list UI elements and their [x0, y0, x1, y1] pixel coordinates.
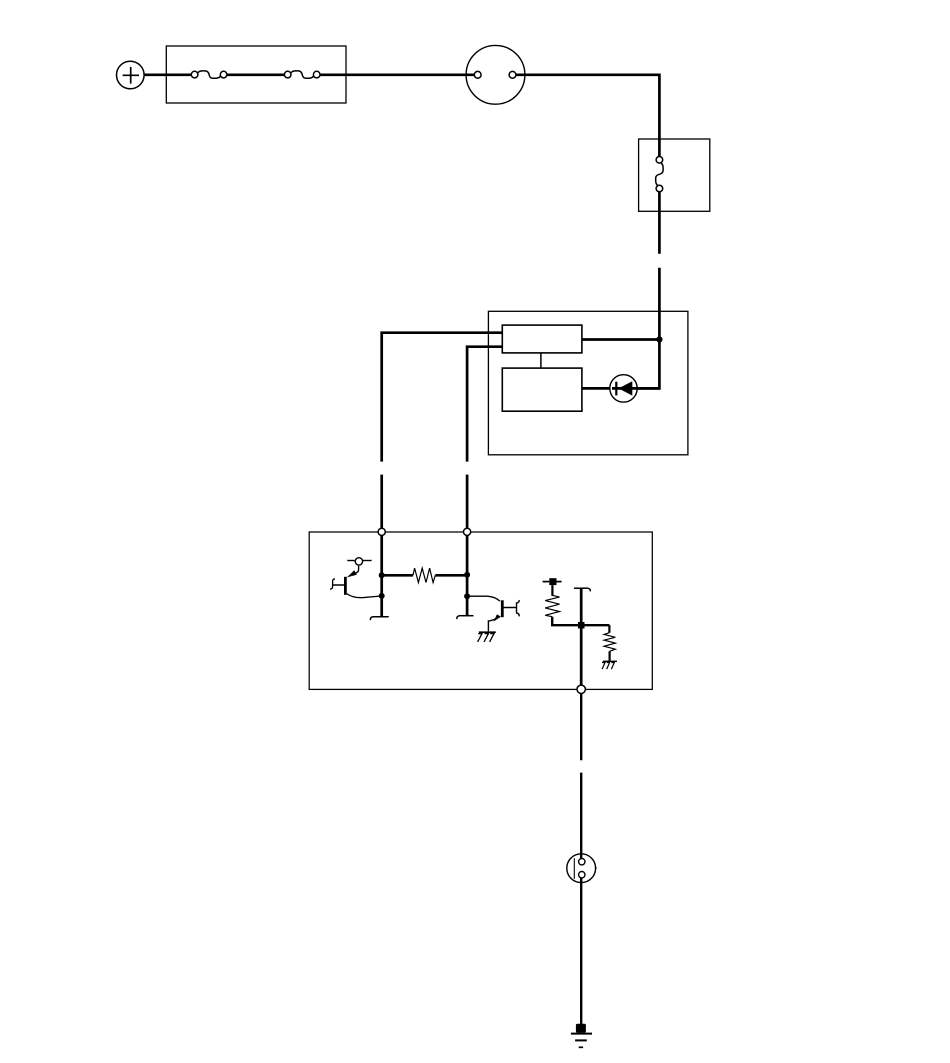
ground G401: [571, 1024, 592, 1048]
node Q1 emitter: [379, 593, 385, 599]
ECM pin 2 terminal: [464, 528, 471, 535]
ignition switch: [466, 45, 525, 104]
ECM box: [309, 532, 652, 689]
node Q1 collector: [379, 572, 385, 578]
node Q2 base top: [464, 572, 470, 578]
wire diode to contact block: [582, 387, 612, 390]
fuse F3 (vertical): [656, 157, 663, 192]
Q1 base terminal circle: [347, 558, 371, 565]
wire fuse box 2 down: [658, 192, 661, 254]
voltage source terminal (filled square): [543, 578, 562, 596]
resistor R2 (vertical): [545, 595, 559, 616]
wire node down to diode: [610, 340, 659, 389]
wire ignition switch to fuse box 2: [516, 75, 659, 157]
wire R2 to node: [552, 617, 609, 626]
wire dash to connector: [580, 773, 582, 855]
wire ECM to connector: [580, 694, 582, 761]
junction node 2: [578, 622, 585, 629]
left rail end bar: [370, 617, 388, 620]
wire pin2 dash: [466, 475, 469, 528]
link between blocks: [540, 353, 542, 368]
relay contact block: [502, 368, 582, 411]
left rail inside ECM: [380, 535, 383, 616]
fuse F1: [191, 71, 227, 78]
wire relay to ECM pin 1: [382, 333, 503, 462]
wire connector to ground: [580, 878, 582, 1024]
resistor R1: [382, 568, 467, 582]
relay coil block: [502, 325, 582, 353]
right rail inside ECM: [466, 535, 469, 615]
wire fuse 1 to fuse 2: [227, 73, 285, 76]
wire pin1 dash: [380, 475, 383, 528]
fuse box 2: [639, 139, 710, 211]
diode D1: [610, 375, 660, 402]
inline connector C1: [567, 854, 597, 883]
relay unit box: [488, 311, 688, 455]
wire coil block to node: [582, 338, 660, 341]
transistor Q2: [467, 596, 519, 631]
sensor line top bar: [574, 588, 590, 591]
wire fuse 2 to ignition switch: [320, 73, 474, 76]
right rail end bar: [457, 616, 474, 619]
sensor rail: [580, 588, 583, 685]
ECM output terminal: [577, 685, 585, 693]
junction node: [656, 336, 662, 342]
transistor Q1: [330, 566, 381, 598]
fuse box: [166, 46, 346, 103]
wire relay to ECM pin 2: [467, 347, 502, 462]
ground R3: [602, 661, 617, 669]
fuse F2: [284, 71, 320, 78]
ECM pin 1 terminal: [378, 528, 385, 535]
battery positive terminal: [117, 61, 145, 89]
node Q2 base: [464, 593, 470, 599]
wire battery to fuse 1: [144, 73, 191, 76]
wire continuation dash into relay box: [658, 268, 661, 340]
resistor R3 (vertical): [604, 625, 615, 661]
ground Q2 emitter: [478, 632, 496, 642]
